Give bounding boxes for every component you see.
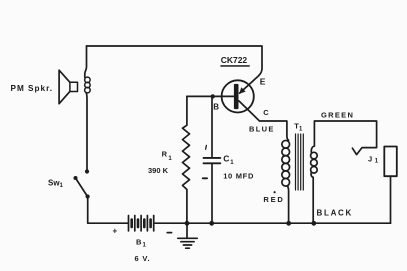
- svg-text:CK722: CK722: [221, 55, 248, 65]
- svg-text:B: B: [136, 238, 142, 247]
- svg-text:J: J: [368, 155, 372, 164]
- svg-text:1: 1: [143, 243, 147, 249]
- svg-text:C: C: [263, 108, 269, 117]
- svg-text:RED: RED: [263, 195, 284, 204]
- svg-text:R: R: [162, 150, 168, 159]
- svg-text:10 MFD: 10 MFD: [223, 172, 254, 181]
- svg-text:E: E: [260, 76, 266, 86]
- svg-text:PM Spkr.: PM Spkr.: [11, 84, 54, 93]
- svg-text:B: B: [213, 103, 219, 112]
- svg-text:1: 1: [375, 159, 379, 165]
- svg-text:1: 1: [60, 183, 64, 189]
- svg-text:390 K: 390 K: [148, 166, 169, 175]
- svg-text:BLUE: BLUE: [249, 124, 275, 133]
- svg-text:1: 1: [230, 160, 234, 166]
- svg-text:Sw: Sw: [48, 179, 60, 188]
- svg-text:6 V.: 6 V.: [135, 254, 151, 263]
- svg-text:1: 1: [299, 127, 303, 133]
- svg-text:1: 1: [168, 156, 172, 162]
- svg-text:GREEN: GREEN: [321, 111, 354, 120]
- svg-text:C: C: [223, 154, 229, 164]
- svg-text:BLACK: BLACK: [317, 208, 354, 217]
- svg-text:+: +: [113, 227, 118, 236]
